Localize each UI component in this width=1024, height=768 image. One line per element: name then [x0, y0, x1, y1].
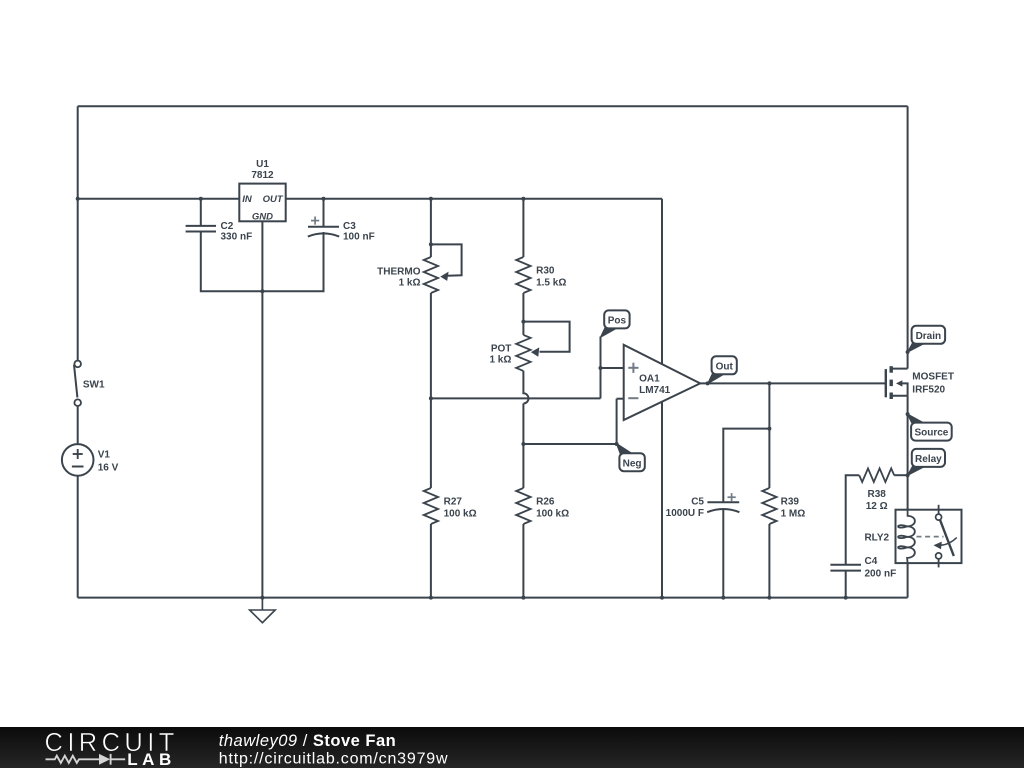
- svg-text:R38: R38: [868, 489, 887, 500]
- svg-text:THERMO: THERMO: [377, 266, 421, 277]
- svg-text:U1: U1: [256, 159, 269, 170]
- svg-text:GND: GND: [252, 212, 273, 223]
- svg-text:7812: 7812: [251, 170, 274, 181]
- svg-text:330 nF: 330 nF: [221, 231, 253, 242]
- svg-text:POT: POT: [491, 343, 512, 354]
- svg-text:1.5 kΩ: 1.5 kΩ: [536, 277, 566, 288]
- svg-text:C4: C4: [865, 556, 878, 567]
- svg-text:IN: IN: [242, 194, 253, 205]
- svg-text:C2: C2: [221, 221, 234, 232]
- svg-text:100 kΩ: 100 kΩ: [536, 509, 569, 520]
- svg-text:Neg: Neg: [623, 458, 642, 469]
- svg-text:100 kΩ: 100 kΩ: [444, 509, 477, 520]
- svg-text:http://circuitlab.com/cn3979w: http://circuitlab.com/cn3979w: [219, 751, 449, 768]
- svg-text:16 V: 16 V: [98, 463, 119, 474]
- svg-text:C5: C5: [691, 497, 704, 508]
- svg-text:OA1: OA1: [639, 374, 660, 385]
- svg-text:100 nF: 100 nF: [343, 231, 375, 242]
- svg-text:V1: V1: [98, 450, 111, 461]
- svg-text:C3: C3: [343, 221, 356, 232]
- svg-text:RLY2: RLY2: [864, 532, 889, 543]
- svg-text:LAB: LAB: [127, 750, 176, 768]
- svg-text:R27: R27: [444, 497, 463, 508]
- svg-text:12 Ω: 12 Ω: [866, 501, 888, 512]
- svg-text:SW1: SW1: [83, 380, 105, 391]
- svg-text:1 kΩ: 1 kΩ: [489, 354, 511, 365]
- svg-text:LM741: LM741: [639, 385, 671, 396]
- svg-text:1 kΩ: 1 kΩ: [399, 277, 421, 288]
- svg-text:IRF520: IRF520: [912, 385, 945, 396]
- svg-text:Source: Source: [914, 428, 948, 439]
- svg-text:1 MΩ: 1 MΩ: [781, 508, 806, 519]
- svg-text:1000U F: 1000U F: [666, 508, 704, 519]
- svg-text:200 nF: 200 nF: [865, 569, 897, 580]
- svg-text:R30: R30: [536, 265, 555, 276]
- svg-text:Drain: Drain: [916, 331, 942, 342]
- svg-text:thawley09 / Stove Fan: thawley09 / Stove Fan: [219, 732, 396, 750]
- svg-text:MOSFET: MOSFET: [912, 372, 954, 383]
- svg-text:Relay: Relay: [915, 454, 942, 465]
- svg-text:OUT: OUT: [263, 194, 284, 205]
- svg-text:R26: R26: [536, 497, 555, 508]
- svg-text:Pos: Pos: [608, 316, 627, 327]
- svg-text:Out: Out: [716, 361, 734, 372]
- svg-text:R39: R39: [781, 497, 800, 508]
